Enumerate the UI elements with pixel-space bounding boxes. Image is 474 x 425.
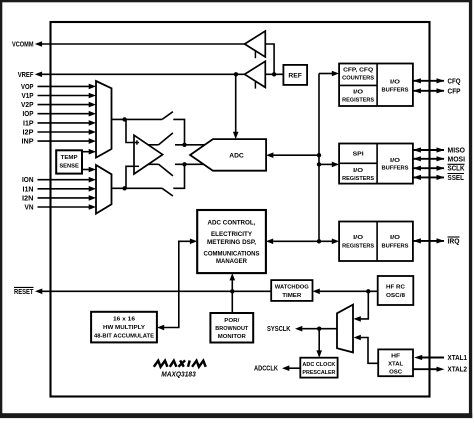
- svg-text:I1N: I1N: [23, 186, 34, 193]
- switch PGA - output (open lever): [159, 164, 173, 176]
- wire TEMP SENSE to negative mux: [82, 167, 96, 173]
- svg-text:I/O: I/O: [353, 89, 364, 95]
- svg-text:I/O: I/O: [353, 168, 364, 174]
- wire internal bus vertical: [318, 74, 320, 242]
- label MAXQ3183: [161, 370, 196, 379]
- pin VN label: [25, 205, 34, 212]
- svg-text:REGISTERS: REGISTERS: [342, 176, 374, 182]
- block ADC CONTROL ELECTRICITY METERING DSP COMMUNICATIONS MANAGER: [197, 210, 266, 273]
- wire HF XTAL osc to clock mux: [354, 335, 379, 364]
- op-amp PGA: [134, 135, 163, 174]
- svg-text:CFP: CFP: [448, 88, 461, 95]
- svg-text:SSEL: SSEL: [448, 175, 465, 182]
- pin I1N label: [23, 186, 34, 193]
- block REF bandgap reference: [283, 65, 307, 85]
- wire SSEL: [413, 175, 445, 180]
- svg-text:HF RC: HF RC: [386, 285, 406, 291]
- pin I1P label: [23, 120, 34, 127]
- block TEMP SENSE: [56, 150, 82, 173]
- svg-text:I/O: I/O: [390, 158, 401, 164]
- node bus-IRQ junction: [317, 239, 321, 243]
- svg-text:MAXQ3183: MAXQ3183: [161, 370, 196, 379]
- pin I2N label: [22, 195, 34, 202]
- wire I1N: [38, 186, 97, 192]
- pin IRQ label: [448, 237, 461, 245]
- node bus-ADC junction: [317, 153, 321, 157]
- svg-text:SENSE: SENSE: [59, 164, 79, 170]
- node RESET-POR junction: [230, 289, 234, 293]
- node oscillator junction: [366, 289, 370, 293]
- svg-text:POR/: POR/: [224, 318, 239, 324]
- pin I2P label: [23, 130, 34, 137]
- pin SYSCLK label: [267, 326, 291, 333]
- pin XTAL2 label: [448, 367, 468, 374]
- svg-text:CFP, CFQ: CFP, CFQ: [343, 68, 373, 74]
- block ADC: [190, 139, 266, 171]
- svg-text:XTAL1: XTAL1: [448, 355, 468, 362]
- svg-text:BROWNOUT: BROWNOUT: [215, 326, 248, 332]
- svg-text:REGISTERS: REGISTERS: [342, 244, 374, 250]
- wire RESET: [35, 289, 271, 295]
- svg-text:HW MULTIPLY: HW MULTIPLY: [103, 325, 145, 331]
- svg-text:OSC/8: OSC/8: [386, 293, 406, 299]
- wire V1P: [38, 93, 97, 99]
- wire DSP to HW multiply: [157, 239, 197, 331]
- svg-text:ADC CLOCK: ADC CLOCK: [302, 362, 336, 368]
- block WATCHDOG TIMER: [271, 280, 312, 301]
- mux negative-input analog multiplexer: [96, 165, 112, 214]
- svg-text:48-BIT ACCUMULATE: 48-BIT ACCUMULATE: [94, 334, 154, 340]
- chip boundary box MAXQ3183: [51, 22, 430, 397]
- pin ADCCLK label: [254, 366, 278, 373]
- svg-text:COUNTERS: COUNTERS: [342, 76, 374, 82]
- node bus-SPI junction: [317, 162, 321, 166]
- svg-text:I2N: I2N: [22, 195, 34, 202]
- svg-text:IRQ: IRQ: [448, 238, 461, 245]
- svg-text:ION: ION: [22, 177, 34, 184]
- svg-text:IOP: IOP: [23, 111, 34, 118]
- svg-text:I/O: I/O: [390, 235, 401, 241]
- wire ADCCLK: [282, 365, 300, 371]
- pin SSEL label: [448, 174, 465, 182]
- svg-text:ELECTRICITY: ELECTRICITY: [211, 231, 252, 238]
- wire SYSCLK: [295, 326, 337, 332]
- svg-text:HF: HF: [391, 354, 400, 360]
- svg-text:COMMUNICATIONS: COMMUNICATIONS: [204, 250, 260, 257]
- wire HF RC osc to clock mux: [354, 291, 369, 321]
- mux positive-input analog multiplexer: [96, 81, 112, 158]
- wire ION: [38, 177, 97, 183]
- wire ADC lower input: [175, 163, 203, 165]
- node buffer input junction: [272, 72, 276, 76]
- wire PGA + input: [126, 119, 134, 142]
- svg-text:TEMP: TEMP: [61, 155, 78, 161]
- wire VCOMM buffer input: [265, 44, 274, 74]
- wire CFQ: [413, 78, 445, 83]
- wire DSP to bus to IRQ registers: [266, 239, 339, 245]
- wire positive mux output: [112, 118, 163, 120]
- switch negative bypass (open lever): [162, 188, 173, 196]
- svg-text:VCOMM: VCOMM: [12, 42, 34, 49]
- svg-text:16 x 16: 16 x 16: [113, 316, 136, 322]
- pin IOP label: [23, 111, 34, 118]
- pin VCOMM label: [12, 42, 34, 49]
- pin VOP label: [21, 84, 34, 91]
- pin V1P label: [22, 93, 34, 100]
- svg-text:VN: VN: [25, 205, 34, 212]
- wire negative mux output: [112, 187, 163, 189]
- wire IOP: [38, 111, 97, 117]
- node VREF junction: [234, 72, 238, 76]
- svg-text:WATCHDOG: WATCHDOG: [275, 285, 309, 291]
- pin SCLK label: [448, 164, 465, 172]
- svg-text:ADCCLK: ADCCLK: [254, 366, 278, 373]
- wire positive bypass to ADC upper node: [173, 119, 184, 144]
- switch PGA + output (open lever): [159, 133, 173, 145]
- svg-text:METERING DSP,: METERING DSP,: [207, 239, 256, 246]
- node ADC lower input junction: [182, 162, 186, 166]
- wire CFP: [413, 88, 445, 93]
- pin MOSI label: [448, 156, 466, 163]
- wire MISO: [413, 147, 445, 152]
- node SYSCLK junction: [317, 327, 321, 331]
- op-amp VCOMM buffer: [245, 31, 266, 58]
- wire SCLK: [413, 166, 445, 171]
- logo MAXIM: [154, 360, 206, 366]
- pin ION label: [22, 177, 34, 184]
- pin CFQ label: [448, 78, 461, 85]
- svg-text:SPI: SPI: [353, 152, 364, 158]
- wire I2P: [38, 129, 97, 135]
- svg-text:I2P: I2P: [23, 130, 34, 137]
- wire ADC upper input: [175, 144, 205, 146]
- wire V2P: [38, 102, 97, 108]
- pin CFP label: [448, 88, 461, 95]
- svg-text:MANAGER: MANAGER: [216, 258, 248, 265]
- wire I2N: [38, 195, 97, 201]
- wire INP: [38, 138, 97, 144]
- svg-text:ADC: ADC: [229, 152, 244, 159]
- wire negative bypass to ADC lower node: [173, 164, 184, 188]
- block 16x16 HW MULTIPLY 48-BIT ACCUMULATE: [91, 312, 157, 343]
- wire I1P: [38, 120, 97, 126]
- block interrupt IO registers with IO buffers: [339, 222, 413, 262]
- svg-text:VOP: VOP: [21, 84, 34, 91]
- svg-text:MISO: MISO: [448, 148, 466, 155]
- wire POR to DSP: [230, 273, 236, 313]
- wire SYSCLK to prescaler: [316, 329, 322, 358]
- svg-text:BUFFERS: BUFFERS: [382, 88, 409, 94]
- wire TEMP SENSE to positive mux: [82, 149, 96, 155]
- svg-text:I/O: I/O: [353, 235, 364, 241]
- switch positive bypass (open lever): [162, 112, 173, 120]
- svg-text:SYSCLK: SYSCLK: [267, 326, 291, 333]
- svg-text:ADC CONTROL,: ADC CONTROL,: [208, 219, 256, 226]
- node ADC upper input junction: [182, 143, 186, 147]
- pin XTAL1 label: [448, 355, 468, 362]
- svg-text:SCLK: SCLK: [448, 166, 465, 173]
- svg-text:RESET: RESET: [14, 289, 34, 296]
- svg-text:V2P: V2P: [21, 102, 34, 109]
- svg-text:VREF: VREF: [18, 72, 34, 79]
- wire IRQ: [413, 238, 445, 243]
- wire PGA + output stub: [148, 144, 158, 146]
- svg-text:CFQ: CFQ: [448, 78, 461, 85]
- pin VREF label: [18, 72, 34, 79]
- svg-text:TIMER: TIMER: [282, 293, 302, 299]
- wire bus to SPI: [319, 162, 339, 168]
- mux clock source selector: [337, 305, 353, 353]
- block CFP CFQ counters and IO registers with IO buffers: [339, 64, 413, 107]
- node negative mux output junction: [122, 186, 126, 190]
- wire XTAL2: [413, 367, 445, 372]
- svg-text:OSC: OSC: [389, 369, 403, 375]
- pin MISO label: [448, 148, 466, 155]
- wire PGA - input: [126, 166, 134, 188]
- wire MOSI: [413, 156, 445, 161]
- svg-text:REGISTERS: REGISTERS: [342, 97, 374, 103]
- svg-text:BUFFERS: BUFFERS: [382, 165, 409, 171]
- wire XTAL1: [414, 355, 444, 360]
- wire bus to pulse counters: [319, 71, 339, 77]
- svg-text:MOSI: MOSI: [448, 156, 466, 163]
- block POR BROWNOUT MONITOR: [210, 313, 253, 343]
- svg-text:V1P: V1P: [22, 93, 34, 100]
- block HF XTAL OSC: [378, 349, 413, 376]
- wire VOP: [38, 84, 97, 90]
- block SPI and IO registers with IO buffers: [339, 144, 413, 184]
- wire HF RC osc to watchdog: [313, 289, 378, 295]
- wire REF to VREF buffer: [265, 73, 283, 75]
- wire VREF: [35, 72, 245, 78]
- wire VCOMM: [35, 41, 245, 47]
- svg-text:PRESCALER: PRESCALER: [302, 370, 336, 376]
- svg-text:XTAL2: XTAL2: [448, 367, 468, 374]
- svg-text:I1P: I1P: [23, 120, 34, 127]
- svg-text:MONITOR: MONITOR: [218, 334, 247, 340]
- wire bus to ADC: [266, 152, 319, 158]
- wire VREF to ADC: [233, 76, 239, 139]
- pin V2P label: [21, 102, 34, 109]
- pin INP label: [22, 139, 34, 146]
- node positive mux output junction: [122, 117, 126, 121]
- svg-text:BUFFERS: BUFFERS: [382, 244, 409, 250]
- block HF RC OSC/8: [378, 276, 414, 305]
- svg-text:I/O: I/O: [390, 80, 401, 86]
- wire VN: [38, 204, 97, 210]
- wire PGA - output stub: [148, 163, 158, 165]
- svg-text:XTAL: XTAL: [388, 361, 403, 367]
- block ADC CLOCK PRESCALER: [300, 358, 337, 378]
- pin RESET label: [14, 287, 34, 295]
- svg-text:REF: REF: [288, 72, 302, 79]
- op-amp VREF buffer: [245, 61, 266, 88]
- svg-text:INP: INP: [22, 139, 34, 146]
